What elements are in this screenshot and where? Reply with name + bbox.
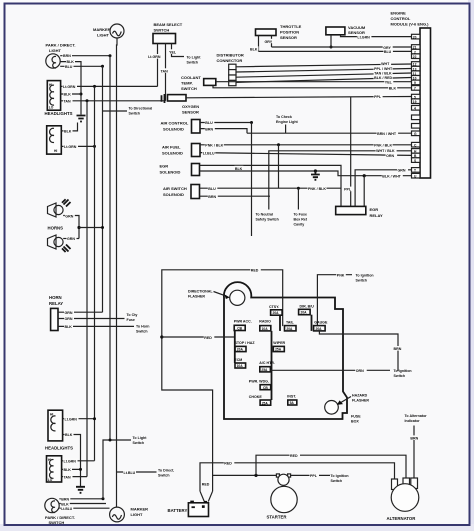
- wire GRN horn relay to T3: [58, 310, 103, 315]
- svg-text:BRN: BRN: [61, 498, 69, 502]
- svg-text:To Direct.: To Direct.: [158, 469, 174, 473]
- ECM pin 7: [412, 86, 421, 91]
- wire: egr solenoid ground wire to ECM pin U (BLK/WHT): [200, 171, 412, 178]
- svg-text:Fuse: Fuse: [127, 318, 135, 322]
- svg-text:Switch: Switch: [133, 441, 145, 445]
- svg-text:MARKER: MARKER: [93, 27, 111, 32]
- wire TAN beam switch leg: [160, 44, 170, 101]
- wire LT.GRN second headlight to trunk T2: [61, 144, 94, 149]
- svg-text:Lt.GRN: Lt.GRN: [64, 145, 77, 149]
- svg-text:BRN: BRN: [208, 195, 216, 199]
- lamp: marker light (bottom): [110, 507, 149, 522]
- beam select switch: [153, 22, 183, 44]
- wire: alternator indicator lead: [405, 414, 428, 479]
- ECM pin 22: [412, 54, 421, 59]
- node: bus / alternator red junction: [254, 474, 257, 477]
- starter solenoid terminal left: [276, 474, 279, 477]
- wire LT.BLU air fuel solenoid to ECM pin B (ORN): [200, 150, 412, 158]
- wire: branch to fuse box retainer cavity: [294, 188, 308, 226]
- svg-text:PWR ACC.: PWR ACC.: [234, 320, 252, 324]
- wire: check engine light stub: [276, 115, 299, 133]
- egr solenoid: [160, 163, 200, 175]
- svg-text:RED: RED: [251, 269, 259, 273]
- svg-text:SOLENOID: SOLENOID: [162, 151, 183, 156]
- svg-text:Lt.GRN: Lt.GRN: [64, 460, 77, 464]
- svg-text:RED: RED: [204, 336, 212, 340]
- svg-text:WIPER: WIPER: [273, 341, 285, 345]
- node: BLK/WHT relay junction: [363, 174, 366, 177]
- svg-text:BLK: BLK: [65, 433, 73, 437]
- svg-text:10A: 10A: [237, 364, 244, 368]
- svg-text:AIR SWITCH: AIR SWITCH: [163, 186, 187, 191]
- fuse WIPER 25A: [273, 341, 285, 352]
- wire LT.GRN beam switch leg: [148, 44, 163, 87]
- svg-text:20: 20: [413, 35, 417, 39]
- fuse PWR. WDG. CB: [249, 380, 271, 390]
- svg-text:BLK: BLK: [64, 468, 72, 472]
- node: BLU junction: [250, 121, 253, 124]
- wire: relay leg from BLK/WHT line: [363, 176, 365, 207]
- svg-text:Lt.BLU: Lt.BLU: [203, 151, 215, 155]
- headlight connector (top, HI/LO): [45, 81, 73, 117]
- wire PPL/WHT distributor to ECM pin 13: [236, 66, 412, 72]
- wire BLK bottom HI connector to ground trunk: [63, 432, 81, 486]
- svg-text:BRN: BRN: [205, 127, 213, 131]
- wire BLK second headlight to ground: [61, 123, 77, 134]
- svg-text:To Alternator: To Alternator: [405, 414, 428, 418]
- svg-text:LIGHT: LIGHT: [97, 33, 110, 38]
- svg-text:DIRECTIONAL: DIRECTIONAL: [188, 290, 213, 294]
- svg-text:BLK / WHT: BLK / WHT: [382, 174, 401, 178]
- svg-text:HORN: HORN: [49, 295, 62, 300]
- wire BLK bottom headlights to ground: [62, 467, 81, 472]
- svg-text:To Light: To Light: [133, 436, 148, 440]
- wire ORN horn relay to cty fuse: [58, 313, 137, 322]
- svg-text:SENSOR: SENSOR: [348, 30, 365, 35]
- svg-text:PNK / BLK: PNK / BLK: [308, 187, 326, 191]
- wire BLK egr solenoid to egr relay: [200, 165, 342, 206]
- ECM pin 13: [412, 66, 421, 71]
- svg-text:SOLENOID: SOLENOID: [163, 127, 184, 132]
- svg-text:PWR. WDG.: PWR. WDG.: [249, 380, 269, 384]
- wire RED junction to alternator: [256, 453, 406, 479]
- svg-text:PARK / DIRECT.: PARK / DIRECT.: [46, 43, 76, 48]
- directional flasher: [188, 290, 245, 306]
- svg-text:PNK / BLK: PNK / BLK: [374, 144, 392, 148]
- svg-text:A/C HTR.: A/C HTR.: [259, 361, 275, 365]
- svg-text:SENSOR: SENSOR: [182, 110, 199, 115]
- ground (headlights area): [77, 116, 86, 122]
- starter solenoid: [278, 474, 289, 485]
- svg-text:RELAY: RELAY: [370, 213, 384, 218]
- svg-text:25A: 25A: [275, 348, 282, 352]
- air control solenoid: [161, 120, 201, 134]
- svg-text:4: 4: [414, 107, 416, 111]
- wire: marker light down (trunk T5 top): [116, 38, 119, 472]
- svg-text:ORN: ORN: [386, 154, 394, 158]
- wire: to light switch tee: [103, 436, 147, 499]
- svg-text:BLU: BLU: [384, 50, 392, 54]
- wire BLU to ECM pin 2: [259, 49, 412, 54]
- horn (lower): [48, 235, 71, 252]
- wire PPL oxygen sensor to ECM pin 5: [186, 94, 412, 99]
- svg-text:To Neutral: To Neutral: [256, 213, 274, 217]
- fuse RADIO 10A: [259, 320, 271, 331]
- svg-text:BLK: BLK: [389, 86, 397, 90]
- wire BRN air switch solenoid: [200, 194, 271, 199]
- svg-text:Engine Light: Engine Light: [276, 120, 299, 124]
- trunk wire T2 (LT.GRN): [94, 86, 96, 460]
- svg-text:BLU: BLU: [208, 187, 216, 191]
- svg-text:RED: RED: [290, 454, 298, 458]
- svg-text:BRN / WHT: BRN / WHT: [377, 132, 397, 136]
- wire RED battery branch (funnel left): [200, 461, 395, 492]
- headlight connector (bottom HI/LO): [47, 456, 62, 482]
- alternator terminal left: [392, 479, 398, 490]
- headlight connector (bottom single HI): [48, 410, 63, 441]
- svg-text:GRN: GRN: [67, 237, 75, 241]
- svg-text:CHOKE: CHOKE: [249, 395, 263, 399]
- wire BLK/RED distributor to ECM pin 10: [236, 75, 412, 83]
- ECM pin blank2: [412, 124, 421, 129]
- svg-text:To Light: To Light: [187, 56, 202, 60]
- svg-text:BEAM SELECT: BEAM SELECT: [154, 22, 183, 27]
- wire: dir b/u bus: [311, 315, 313, 331]
- svg-text:ECM: ECM: [234, 358, 242, 362]
- svg-text:BRN: BRN: [63, 54, 71, 58]
- svg-text:To Horn: To Horn: [136, 324, 150, 328]
- svg-text:Switch: Switch: [187, 61, 199, 65]
- svg-text:TEMP.: TEMP.: [181, 81, 193, 86]
- node: LT.GRN2 / T2 junction: [93, 145, 96, 148]
- svg-text:Switch: Switch: [394, 374, 406, 378]
- wire BLK horn relay to horn switch: [58, 324, 150, 333]
- wire LT.GRN vacuum sensor to ECM pin 20: [341, 34, 412, 39]
- svg-text:Lt.BLU: Lt.BLU: [124, 471, 136, 475]
- headlight connector (second, HI): [47, 126, 62, 154]
- fuse PWR ACC. CB: [234, 320, 252, 331]
- svg-text:To Fuse: To Fuse: [294, 213, 308, 217]
- svg-text:BLK: BLK: [64, 93, 72, 97]
- svg-text:GRN: GRN: [398, 169, 406, 173]
- svg-text:Switch: Switch: [158, 474, 170, 478]
- battery: [168, 501, 209, 517]
- ECM pin U: [412, 173, 421, 178]
- wire: BLU drop (to neutral area): [251, 123, 253, 237]
- lamp: marker light (top): [93, 24, 124, 38]
- ECM pin T: [412, 168, 421, 173]
- svg-text:Lt.GRN: Lt.GRN: [65, 417, 78, 421]
- svg-text:PPL: PPL: [344, 188, 352, 192]
- svg-text:WHT / BLK: WHT / BLK: [376, 149, 395, 153]
- svg-text:19: 19: [413, 100, 417, 104]
- lamp: park/direct switch (bottom): [45, 498, 75, 525]
- svg-text:GRN: GRN: [65, 214, 73, 218]
- node: horns junction: [77, 226, 80, 229]
- svg-text:Indicator: Indicator: [405, 419, 421, 423]
- wire BLU park light to trunk T3: [60, 64, 102, 69]
- battery feed funnel: [200, 481, 213, 501]
- svg-text:SOLENOID: SOLENOID: [160, 169, 181, 174]
- svg-text:EGR: EGR: [160, 163, 169, 168]
- svg-text:TAIL: TAIL: [286, 321, 295, 325]
- svg-text:AIR CONTROL: AIR CONTROL: [161, 121, 189, 126]
- trunk wire T4 (BRN/marker): [109, 56, 111, 440]
- wire YEL beam switch to light switch: [169, 44, 202, 65]
- ECM pin 20: [412, 34, 421, 39]
- svg-text:T: T: [414, 169, 416, 173]
- wire: PNK/BLK tap down and over to egr relay: [279, 145, 342, 191]
- svg-text:BLK: BLK: [64, 130, 72, 134]
- svg-text:Box Ret: Box Ret: [294, 218, 308, 222]
- svg-text:STARTER: STARTER: [267, 515, 288, 520]
- wire TAN/BLK distributor to ECM pin 11: [236, 70, 412, 77]
- svg-text:G: G: [414, 132, 417, 136]
- horn (upper): [48, 199, 71, 217]
- svg-text:RADIO: RADIO: [259, 320, 271, 324]
- svg-text:SENSOR: SENSOR: [280, 35, 297, 40]
- svg-text:PPL / WHT: PPL / WHT: [374, 67, 393, 71]
- node: BLK junction at headlight black wire: [80, 93, 83, 96]
- svg-text:20A: 20A: [316, 327, 323, 331]
- starter solenoid terminal right: [288, 474, 291, 477]
- svg-text:To Directional: To Directional: [129, 107, 153, 111]
- svg-text:Safety Switch: Safety Switch: [256, 218, 279, 222]
- wire: TPS left leg (BLK): [250, 36, 259, 52]
- arrow to directional flasher: [214, 292, 227, 297]
- svg-text:BLU: BLU: [205, 121, 213, 125]
- svg-text:AIR FUEL: AIR FUEL: [162, 145, 181, 150]
- ECM pin B: [412, 153, 421, 158]
- svg-text:Switch: Switch: [136, 329, 148, 333]
- svg-text:SWITCH: SWITCH: [181, 86, 197, 91]
- coolant temp switch: [181, 75, 216, 91]
- air switch solenoid: [163, 185, 200, 199]
- svg-text:To Ignition: To Ignition: [394, 369, 412, 373]
- node: ground tap on egr wire: [314, 169, 317, 172]
- wire BLK coolant switch to ECM pin 7: [213, 85, 412, 90]
- svg-text:INST.: INST.: [287, 394, 296, 398]
- wire: T5 down to bottom marker light: [116, 472, 118, 507]
- svg-text:THROTTLE: THROTTLE: [280, 24, 302, 29]
- ECM pin 4: [412, 106, 421, 111]
- svg-text:OXYGEN: OXYGEN: [182, 104, 199, 109]
- starter motor: [267, 486, 298, 519]
- wire GRY to ECM pin 21: [272, 45, 412, 50]
- svg-text:To Check: To Check: [276, 115, 292, 119]
- wire GRN lower horn: [63, 236, 79, 241]
- svg-text:Lt.GRN: Lt.GRN: [357, 35, 370, 39]
- node: BRN / light switch drop junction: [102, 497, 105, 500]
- svg-text:LIGHT: LIGHT: [131, 512, 144, 517]
- svg-text:Switch: Switch: [129, 112, 141, 116]
- svg-text:BRN: BRN: [394, 347, 402, 351]
- wire BLK park light down to ground: [60, 59, 81, 114]
- svg-text:RELAY: RELAY: [49, 301, 63, 306]
- wire: ctsy bus: [279, 315, 281, 331]
- svg-text:BLK: BLK: [235, 167, 243, 171]
- svg-text:TAN / BLK: TAN / BLK: [374, 71, 392, 75]
- svg-text:YEL: YEL: [385, 80, 393, 84]
- svg-text:GAUGE: GAUGE: [314, 321, 328, 325]
- svg-text:TAN: TAN: [64, 99, 72, 103]
- svg-text:COOLANT: COOLANT: [181, 75, 201, 80]
- svg-text:RED: RED: [202, 482, 210, 486]
- svg-text:25A: 25A: [262, 401, 269, 405]
- wire: TPS right leg (GRY): [264, 36, 274, 48]
- wire: main battery bus (PPL to ignition): [213, 473, 349, 483]
- ECM pin 11: [412, 71, 421, 76]
- distributor connector: [217, 53, 244, 86]
- svg-text:CB: CB: [237, 327, 242, 331]
- wire PNK gauge fuse feed to ignition switch: [317, 272, 373, 326]
- wire BRN park light to trunk T4: [60, 53, 110, 58]
- ECM pin S: [412, 158, 421, 163]
- ECM pin 21: [412, 45, 421, 50]
- svg-text:Switch: Switch: [356, 279, 368, 283]
- wire LT.GRN bottom HI connector to T2: [63, 416, 95, 421]
- node: TAN / T1 junction: [86, 99, 89, 102]
- svg-text:To Ignition: To Ignition: [331, 474, 349, 478]
- svg-text:10A: 10A: [262, 327, 269, 331]
- svg-text:20A: 20A: [273, 311, 280, 315]
- svg-text:To Ignition: To Ignition: [356, 274, 374, 278]
- svg-text:FLASHER: FLASHER: [188, 295, 205, 299]
- alternator: [387, 484, 419, 521]
- vacuum sensor: [326, 25, 366, 35]
- wire BRN park switch: [59, 497, 103, 502]
- svg-text:POSITION: POSITION: [280, 30, 299, 35]
- svg-text:HEADLIGHTS: HEADLIGHTS: [45, 446, 73, 451]
- air fuel solenoid: [162, 144, 200, 157]
- svg-text:20A: 20A: [237, 348, 244, 352]
- svg-text:DIR. B/U: DIR. B/U: [300, 305, 315, 309]
- svg-text:25A: 25A: [261, 368, 268, 372]
- svg-text:HEADLIGHTS: HEADLIGHTS: [45, 111, 73, 116]
- svg-text:PNK: PNK: [337, 273, 345, 277]
- svg-text:BATTERY: BATTERY: [168, 508, 188, 513]
- svg-text:EGR: EGR: [370, 207, 379, 212]
- svg-text:HORNS: HORNS: [48, 226, 64, 231]
- wire BLU air switch solenoid to pnk/blk tap line: [200, 186, 279, 191]
- svg-text:22: 22: [413, 55, 417, 59]
- trunk wire T3 (BLU/horn feed): [102, 66, 104, 312]
- svg-text:SWITCH: SWITCH: [154, 28, 170, 33]
- wire RED into fuse box: [162, 335, 235, 340]
- wire ORN a/c fuse to ignition switch: [270, 368, 411, 378]
- wire WHT distributor to ECM pin 12: [236, 61, 412, 67]
- node: red feed junction at fuse box: [160, 335, 163, 338]
- wire BLU air control solenoid: [200, 120, 252, 125]
- fuse STOP/HAZ 20A: [235, 341, 256, 352]
- svg-text:ALTERNATOR: ALTERNATOR: [387, 516, 417, 521]
- svg-text:BLK / RED: BLK / RED: [374, 76, 392, 80]
- svg-text:Switch: Switch: [331, 479, 343, 483]
- svg-text:CTSY.: CTSY.: [269, 305, 279, 309]
- svg-text:SWITCH: SWITCH: [49, 520, 65, 525]
- fuse CTSY 20A: [269, 305, 282, 315]
- node: fuse box cavity branch: [297, 187, 300, 190]
- svg-text:Lt.GRN: Lt.GRN: [63, 85, 76, 89]
- hazard flasher: [325, 393, 370, 414]
- alternator terminal middle: [403, 478, 410, 489]
- fuse GAUGE 20A: [314, 321, 328, 332]
- svg-text:YEL: YEL: [169, 50, 177, 54]
- svg-text:DISTRIBUTOR: DISTRIBUTOR: [217, 53, 244, 58]
- svg-text:CB: CB: [263, 386, 268, 390]
- svg-text:20A: 20A: [301, 311, 308, 315]
- throttle position sensor: [256, 24, 302, 40]
- svg-text:GRN: GRN: [65, 311, 73, 315]
- fuse A/C HTR. 25A: [259, 361, 275, 372]
- node: LT.GRN / T2 junction: [93, 85, 96, 88]
- fuse CHOKE 25A: [249, 395, 271, 406]
- svg-text:PPL: PPL: [374, 95, 382, 99]
- horn relay: [49, 295, 63, 331]
- wire YEL coolant switch to ECM pin 9: [216, 79, 412, 84]
- wire BRN air control solenoid to BRN/WHT line: [200, 126, 247, 133]
- svg-text:9: 9: [414, 81, 416, 85]
- wire BLK park switch: [59, 501, 106, 506]
- svg-text:STOP / HAZ: STOP / HAZ: [235, 341, 256, 345]
- wire RED feed from battery to fuse box: [162, 268, 283, 492]
- wire LT.BLU marker to direct switch: [117, 469, 175, 478]
- svg-text:BOX: BOX: [351, 420, 359, 424]
- wire PPL egr relay to oxygen sensor line: [344, 97, 353, 207]
- svg-text:20A: 20A: [286, 327, 293, 331]
- svg-text:ENGINE: ENGINE: [391, 11, 407, 16]
- svg-text:CONTROL: CONTROL: [391, 16, 411, 21]
- svg-text:MARKER: MARKER: [131, 507, 149, 512]
- node: T4 / light switch junction: [109, 439, 112, 442]
- wire GRN ECM pin T to egr relay: [355, 168, 411, 207]
- ECM pin H: [412, 149, 421, 154]
- node: BRN / T4 junction: [109, 54, 112, 57]
- svg-text:5A: 5A: [290, 401, 295, 405]
- svg-text:CONNECTOR: CONNECTOR: [217, 58, 243, 63]
- wire BLK headlights to ground trunk: [61, 92, 81, 97]
- node: vacuum leg / GRY line: [330, 46, 333, 49]
- svg-text:Lt.BLU: Lt.BLU: [61, 507, 72, 511]
- ECM pin 19: [412, 99, 421, 104]
- svg-text:MODULE (V-6 ENG.): MODULE (V-6 ENG.): [391, 22, 430, 27]
- svg-text:BLK: BLK: [250, 47, 258, 51]
- svg-text:Cavity: Cavity: [294, 223, 305, 227]
- wire BRN gauge output to ignition switch: [319, 331, 403, 371]
- svg-text:LO: LO: [49, 106, 54, 110]
- ECM pin G: [412, 131, 421, 136]
- ECM pin 10: [412, 76, 421, 81]
- ground (bottom headlights): [76, 487, 85, 493]
- wire: radio column bus: [271, 331, 273, 400]
- svg-text:ORN: ORN: [65, 317, 73, 321]
- alternator terminal right: [411, 478, 418, 489]
- svg-text:BLU: BLU: [65, 65, 73, 69]
- node: horn wire / T3: [101, 226, 104, 229]
- trunk wire T1 (TAN): [86, 101, 88, 477]
- node: BLK ground junction: [79, 468, 82, 471]
- ECM pin 2: [412, 49, 421, 54]
- ECM pin blank1: [412, 115, 421, 120]
- node: LT.GRN / T2 bottom junction: [93, 417, 96, 420]
- wire: vacuum sensor left leg to GRY line: [330, 35, 332, 47]
- wire LT.GRN headlights to beam select switch: [61, 84, 158, 89]
- svg-text:BLK: BLK: [61, 502, 69, 506]
- svg-text:FUSE: FUSE: [351, 415, 361, 419]
- svg-text:LIGHT: LIGHT: [49, 48, 62, 53]
- wire GRN upper horn: [63, 213, 79, 238]
- oxygen sensor: [162, 94, 200, 115]
